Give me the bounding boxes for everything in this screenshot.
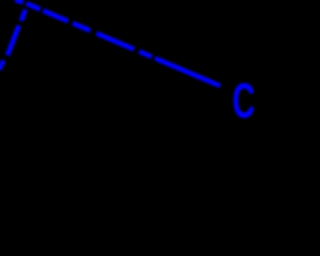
wire: dashed line B-C, segment 5 <box>97 33 135 49</box>
wire: steep dashed line from B toward lower-left, segment 1 <box>21 10 25 21</box>
node C label <box>232 73 255 128</box>
wire: dashed line B-C, segment 7 <box>157 59 219 85</box>
wire: steep dashed line, segment 2 <box>7 26 19 56</box>
svg-text:C: C <box>232 73 255 128</box>
wire: steep dashed line, segment 3 <box>0 60 4 70</box>
wire: dashed line B-C, segment 3 <box>43 11 68 22</box>
wire: dashed line B-C, segment 2 <box>26 3 40 9</box>
wire: dashed line B-C, segment 1 <box>15 0 23 2</box>
wire: dashed line B-C, segment 6 <box>139 51 152 56</box>
wire: dashed line B-C, segment 4 <box>73 23 91 30</box>
